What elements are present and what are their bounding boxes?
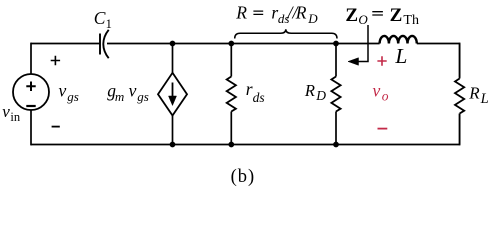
svg-text:(b): (b) [231,167,256,187]
svg-text:gs: gs [137,89,149,104]
svg-text:Th: Th [403,13,419,28]
svg-text:ds: ds [253,90,265,105]
svg-text:m: m [115,89,124,104]
wire left upper [30,43,32,74]
label + (vgs) [51,56,60,65]
svg-text:v: v [373,80,381,100]
inductor L [380,36,417,44]
resistor RD [331,44,340,145]
label R = rds//RD [235,2,318,26]
voltage source vin [13,74,49,110]
svg-text:R: R [295,2,307,22]
node dot top (rds) [228,41,234,47]
wire top middle segment [107,43,380,45]
node dot top (RD) [333,41,339,47]
node dot bottom (dep source) [170,142,176,148]
svg-text:L: L [480,91,489,107]
svg-text:L: L [394,44,407,68]
svg-text:Z: Z [345,5,358,26]
capacitor C1 [100,30,109,58]
svg-text:Z: Z [390,5,403,26]
label ZO = ZTh [345,5,419,28]
svg-text:D: D [307,11,318,26]
brace R = rds//RD [235,29,337,38]
svg-text:R: R [304,81,315,100]
wire top right segment [417,43,460,45]
svg-text:gs: gs [67,89,79,104]
resistor rds [227,44,236,145]
resistor RL [455,44,464,145]
label - (vgs) [52,126,60,128]
label - (vo) red [378,128,388,130]
svg-text:R: R [468,84,480,103]
svg-text:v: v [129,81,137,101]
arrow ZO (looking into output) [348,25,368,65]
svg-text:o: o [382,89,389,104]
node dot top (dep source) [170,41,176,47]
wire left lower [30,110,32,145]
wire right lower [459,114,461,146]
svg-text:1: 1 [106,17,112,31]
wire right upper [459,43,461,78]
node dot bottom (RD) [333,142,339,148]
svg-text:v: v [59,80,67,100]
dependent source gm vgs [158,44,187,145]
svg-text:v: v [2,102,10,121]
label + (vo) red [377,56,386,65]
svg-text:O: O [358,12,368,27]
svg-text:R: R [235,2,247,22]
wire bottom [31,144,460,146]
node dot bottom (rds) [228,142,234,148]
svg-text:D: D [315,88,326,103]
wire top-left segment [31,43,100,45]
svg-text:in: in [10,110,20,124]
svg-text:C: C [94,8,106,28]
